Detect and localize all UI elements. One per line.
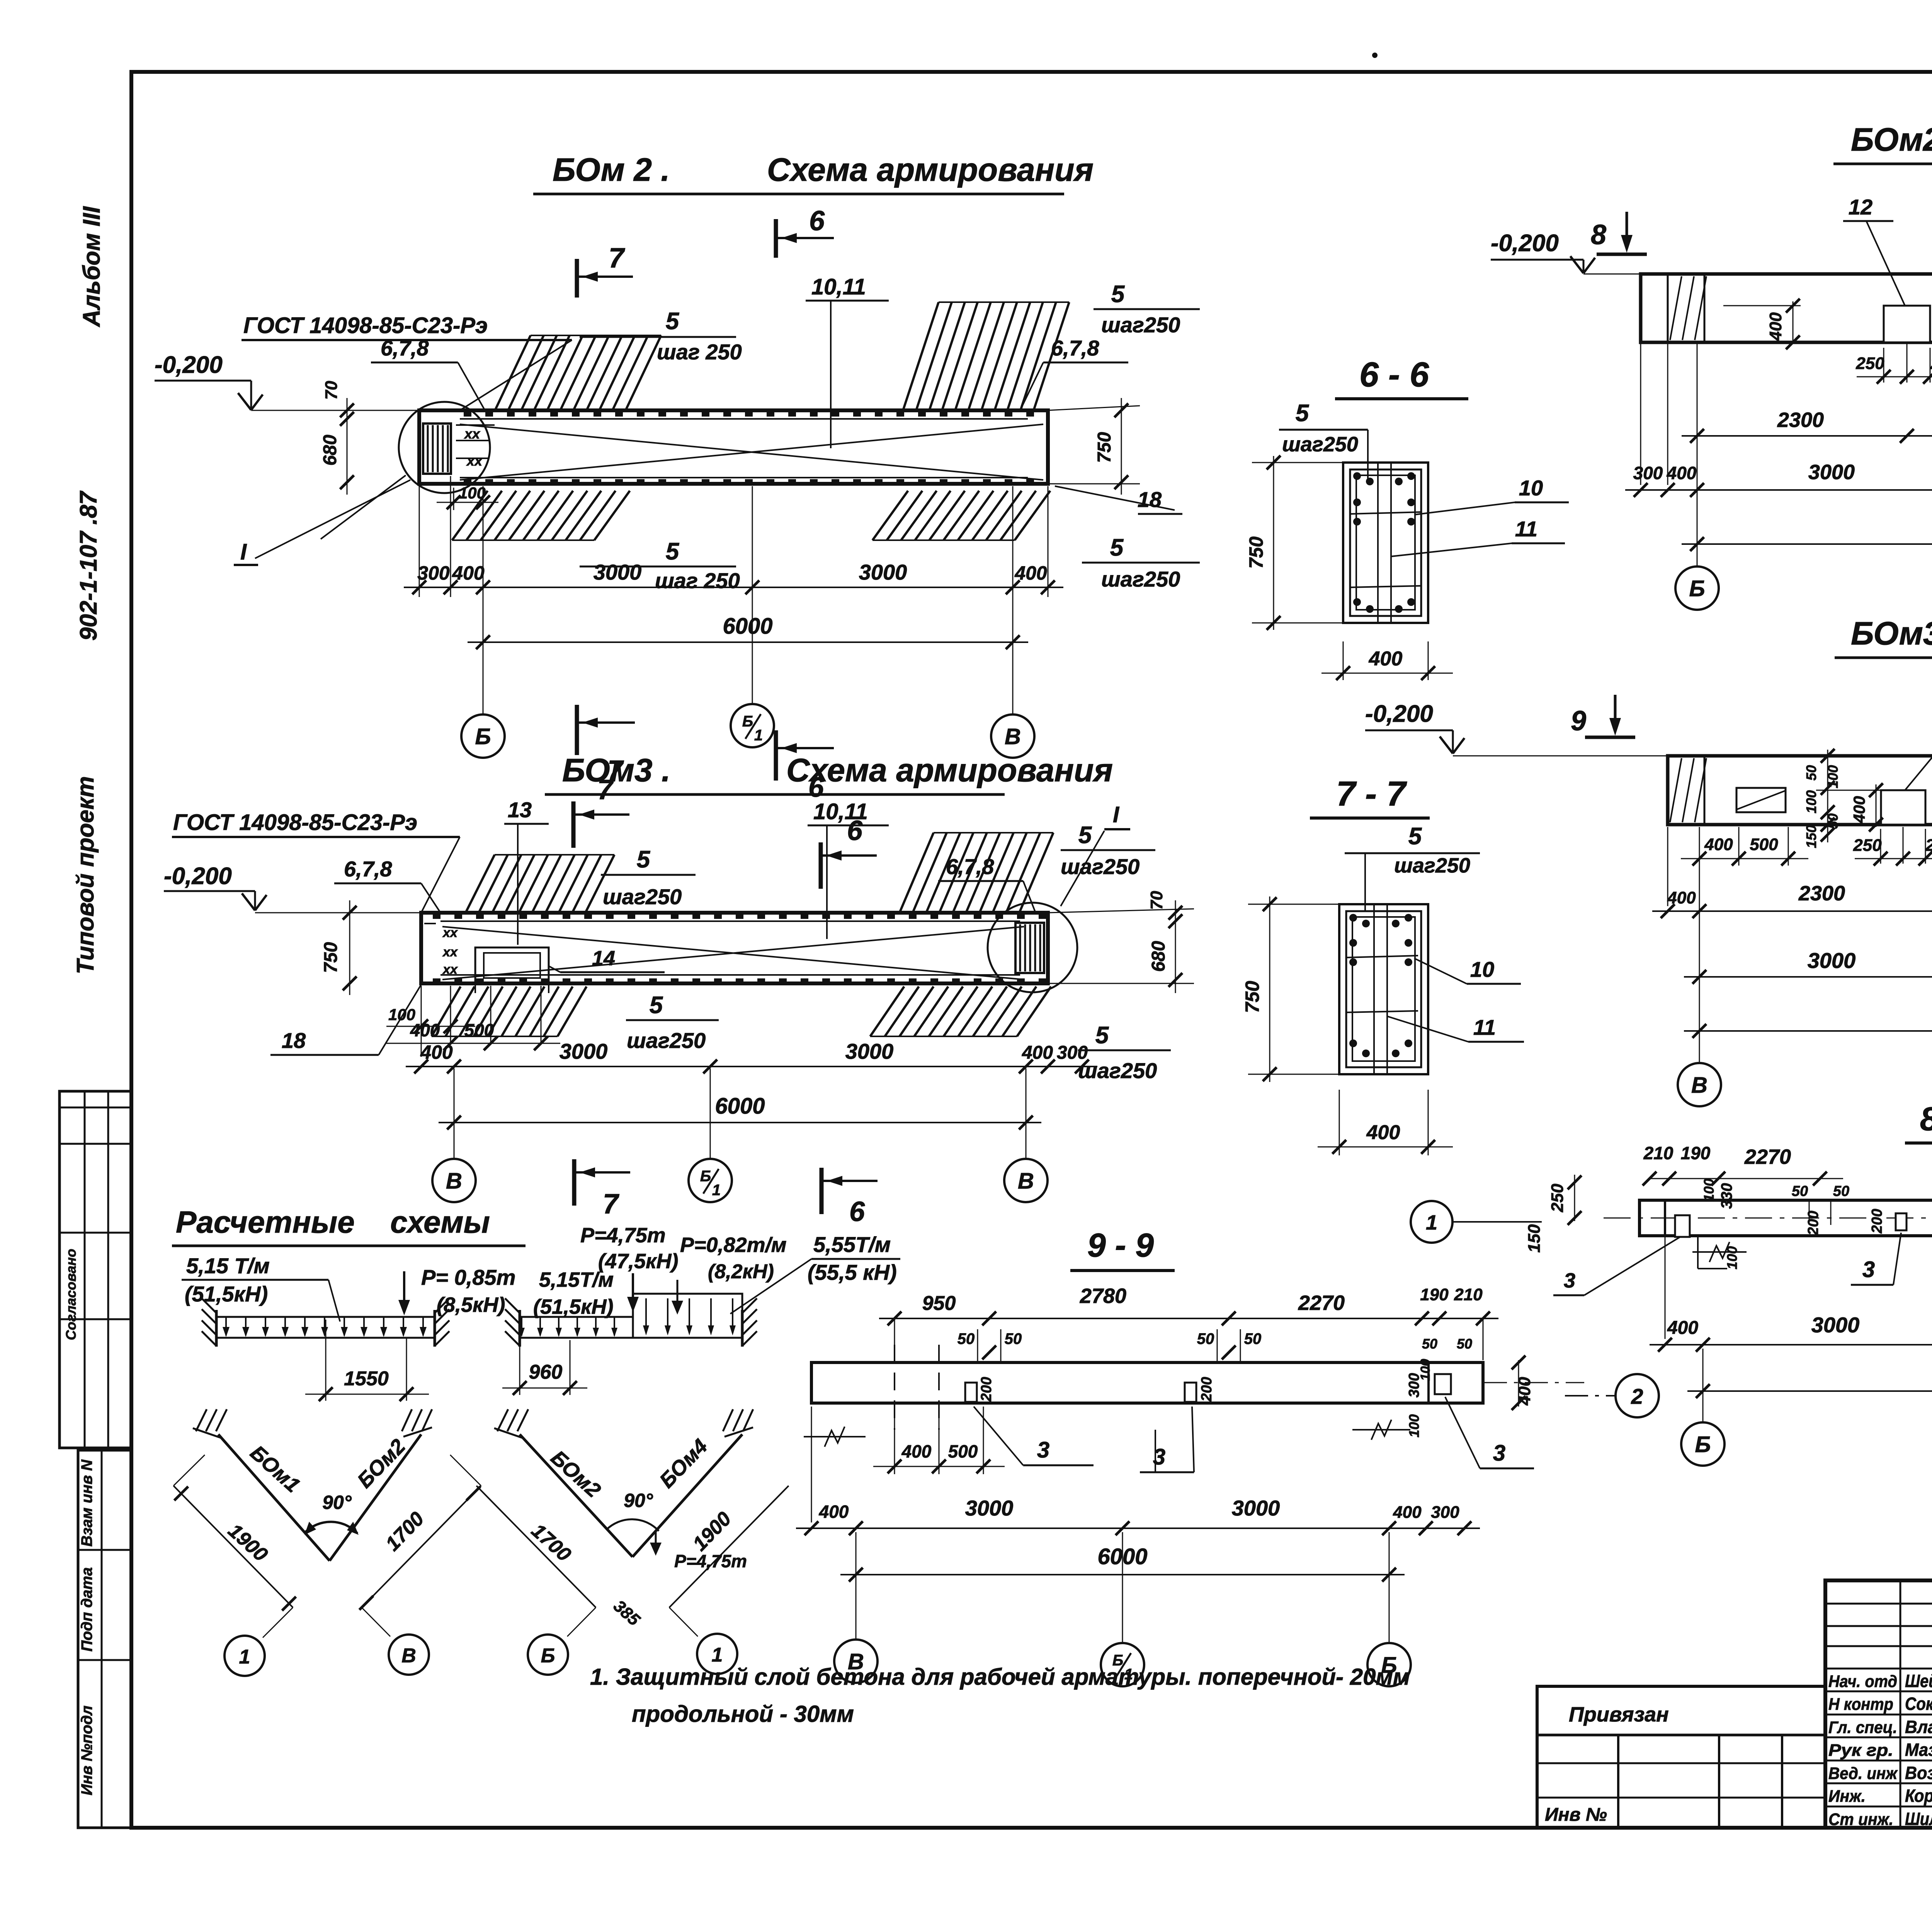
svg-text:xx: xx <box>442 945 458 959</box>
svg-text:ГОСТ 14098-85-С23-Рэ: ГОСТ 14098-85-С23-Рэ <box>173 810 417 835</box>
svg-text:14: 14 <box>592 947 615 970</box>
svg-text:10,11: 10,11 <box>811 274 866 299</box>
svg-text:1: 1 <box>1124 1666 1133 1683</box>
svg-text:10: 10 <box>1519 476 1543 500</box>
svg-text:7: 7 <box>603 1189 619 1220</box>
svg-text:7: 7 <box>609 243 625 274</box>
svg-text:190: 190 <box>1420 1285 1449 1304</box>
svg-text:100: 100 <box>1418 1359 1433 1381</box>
svg-text:2780: 2780 <box>1080 1284 1126 1308</box>
svg-text:В: В <box>1018 1169 1034 1194</box>
svg-text:Схема армирования: Схема армирования <box>786 752 1113 788</box>
svg-text:Согласовано: Согласовано <box>63 1249 79 1340</box>
svg-text:Подп дата: Подп дата <box>78 1567 95 1652</box>
svg-text:3000: 3000 <box>1232 1496 1280 1520</box>
svg-text:Возианов: Возианов <box>1905 1763 1932 1783</box>
svg-text:300: 300 <box>1633 463 1663 483</box>
svg-text:400: 400 <box>819 1502 849 1522</box>
svg-text:(55,5 кН): (55,5 кН) <box>808 1260 897 1284</box>
svg-text:Б: Б <box>1695 1432 1711 1457</box>
svg-text:(51,5кН): (51,5кН) <box>533 1295 613 1318</box>
svg-text:1: 1 <box>239 1646 250 1668</box>
svg-text:400: 400 <box>1667 888 1696 907</box>
svg-text:2270: 2270 <box>1744 1145 1791 1169</box>
svg-text:6,7,8: 6,7,8 <box>1051 336 1099 360</box>
svg-text:50: 50 <box>957 1330 975 1347</box>
svg-text:Вед. инж: Вед. инж <box>1828 1764 1898 1783</box>
svg-text:9: 9 <box>1571 706 1586 737</box>
svg-text:300: 300 <box>1431 1503 1459 1522</box>
svg-text:5: 5 <box>1110 534 1124 561</box>
svg-text:300: 300 <box>417 562 450 584</box>
svg-text:Мазалова: Мазалова <box>1905 1740 1932 1760</box>
svg-text:В: В <box>401 1645 416 1667</box>
svg-text:В: В <box>1691 1073 1708 1098</box>
svg-text:В: В <box>848 1649 864 1674</box>
svg-text:P= 0,85т: P= 0,85т <box>421 1265 515 1289</box>
svg-text:50: 50 <box>1457 1336 1472 1352</box>
svg-text:100: 100 <box>1406 1414 1422 1437</box>
svg-text:400: 400 <box>420 1041 453 1063</box>
svg-text:5: 5 <box>637 846 651 873</box>
svg-text:1. Защитный слой бетона: 1. Защитный слой бетона для рабочей арма… <box>590 1664 1410 1690</box>
svg-text:Расчетные: Расчетные <box>176 1205 355 1239</box>
svg-text:200: 200 <box>1869 1209 1885 1233</box>
svg-text:330: 330 <box>1718 1183 1735 1209</box>
svg-text:Нач. отд: Нач. отд <box>1828 1672 1897 1691</box>
svg-text:шаг250: шаг250 <box>1061 854 1139 879</box>
svg-text:3: 3 <box>1493 1441 1505 1466</box>
svg-text:БОм2.: БОм2. <box>1851 121 1932 158</box>
svg-text:100: 100 <box>1724 1246 1740 1269</box>
svg-text:70: 70 <box>322 381 341 400</box>
svg-text:шаг250: шаг250 <box>1101 567 1180 591</box>
svg-text:750: 750 <box>321 942 341 973</box>
svg-text:9 - 9: 9 - 9 <box>1087 1227 1154 1264</box>
svg-text:400: 400 <box>410 1020 440 1040</box>
svg-text:5: 5 <box>666 538 680 565</box>
svg-text:10: 10 <box>1470 957 1494 981</box>
svg-text:1: 1 <box>1426 1211 1437 1234</box>
svg-text:3000: 3000 <box>1808 461 1855 484</box>
svg-text:1: 1 <box>754 727 763 744</box>
svg-text:750: 750 <box>1242 981 1263 1013</box>
svg-text:150: 150 <box>1803 825 1819 848</box>
svg-text:3: 3 <box>1037 1437 1049 1463</box>
svg-text:100: 100 <box>459 484 486 502</box>
svg-text:400: 400 <box>1667 1318 1698 1338</box>
svg-text:50: 50 <box>1825 813 1841 829</box>
svg-text:Инв №: Инв № <box>1545 1805 1607 1825</box>
svg-text:400: 400 <box>1369 648 1403 670</box>
svg-text:Гл. спец.: Гл. спец. <box>1828 1718 1897 1737</box>
svg-text:90°: 90° <box>322 1492 352 1513</box>
svg-text:(47,5кН): (47,5кН) <box>598 1250 678 1273</box>
svg-text:680: 680 <box>1148 941 1169 972</box>
svg-text:Н контр: Н контр <box>1828 1695 1893 1714</box>
svg-text:8 - 8: 8 - 8 <box>1920 1101 1932 1138</box>
svg-text:Рук гр.: Рук гр. <box>1828 1741 1893 1760</box>
svg-text:210: 210 <box>1454 1285 1483 1304</box>
svg-text:200: 200 <box>1199 1377 1215 1402</box>
svg-text:Б: Б <box>700 1168 711 1185</box>
svg-text:5: 5 <box>1408 823 1422 850</box>
svg-text:Сокольская: Сокольская <box>1905 1694 1932 1714</box>
svg-text:50: 50 <box>1197 1330 1214 1347</box>
svg-text:750: 750 <box>1245 536 1267 569</box>
svg-text:шаг 250: шаг 250 <box>657 340 742 364</box>
svg-text:В: В <box>446 1169 462 1194</box>
svg-text:схемы: схемы <box>390 1205 490 1239</box>
svg-text:3: 3 <box>1564 1269 1575 1292</box>
svg-text:5,15 Т/м: 5,15 Т/м <box>186 1254 270 1278</box>
svg-text:5: 5 <box>1095 1022 1109 1049</box>
svg-text:шаг250: шаг250 <box>1078 1058 1157 1083</box>
svg-text:902-1-107 .87: 902-1-107 .87 <box>75 490 102 641</box>
svg-text:50: 50 <box>1422 1336 1437 1352</box>
svg-text:50: 50 <box>1244 1330 1262 1347</box>
svg-text:6000: 6000 <box>723 614 772 639</box>
svg-text:5: 5 <box>1078 822 1092 849</box>
svg-text:150: 150 <box>1525 1224 1544 1253</box>
svg-text:Взам инв N: Взам инв N <box>78 1459 95 1546</box>
svg-text:400: 400 <box>452 562 485 584</box>
svg-text:500: 500 <box>464 1020 494 1040</box>
svg-text:БОм3.: БОм3. <box>1851 615 1932 651</box>
svg-text:3: 3 <box>1862 1257 1875 1282</box>
svg-text:950: 950 <box>922 1292 956 1315</box>
svg-text:Б: Б <box>1112 1652 1123 1669</box>
svg-text:шаг250: шаг250 <box>1101 313 1180 337</box>
svg-text:300: 300 <box>1057 1043 1088 1063</box>
svg-text:Корнюкин: Корнюкин <box>1905 1786 1932 1806</box>
svg-text:3000: 3000 <box>560 1039 608 1063</box>
svg-text:50: 50 <box>1792 1183 1808 1199</box>
svg-text:250: 250 <box>1930 354 1932 373</box>
svg-text:7 - 7: 7 - 7 <box>1336 775 1407 813</box>
svg-text:680: 680 <box>320 435 340 466</box>
svg-text:xx: xx <box>442 962 458 977</box>
svg-text:11: 11 <box>1515 517 1537 541</box>
svg-text:250: 250 <box>1925 836 1932 855</box>
svg-text:13: 13 <box>508 798 532 822</box>
svg-text:Схема армирования: Схема армирования <box>767 151 1094 188</box>
svg-text:5: 5 <box>666 308 680 335</box>
svg-text:190: 190 <box>1681 1143 1711 1163</box>
svg-text:xx: xx <box>442 925 458 940</box>
svg-text:Б: Б <box>742 713 753 730</box>
svg-text:шаг250: шаг250 <box>1394 854 1470 877</box>
svg-text:250: 250 <box>1548 1184 1567 1213</box>
svg-text:3000: 3000 <box>965 1496 1014 1520</box>
svg-text:шаг250: шаг250 <box>627 1028 706 1053</box>
svg-text:Р=4,75т: Р=4,75т <box>580 1224 666 1247</box>
svg-text:Р=0,82т/м: Р=0,82т/м <box>680 1233 787 1257</box>
svg-text:Власенко: Власенко <box>1905 1717 1932 1737</box>
svg-text:750: 750 <box>1094 432 1115 463</box>
svg-text:6,7,8: 6,7,8 <box>344 857 392 881</box>
svg-text:Б: Б <box>1381 1653 1397 1678</box>
svg-text:5: 5 <box>1111 281 1125 308</box>
svg-text:12: 12 <box>1849 195 1872 219</box>
svg-text:В: В <box>1005 724 1021 749</box>
svg-text:210: 210 <box>1643 1143 1673 1163</box>
svg-text:50: 50 <box>1833 1183 1849 1199</box>
svg-text:50: 50 <box>1005 1330 1022 1347</box>
svg-text:3000: 3000 <box>1808 948 1856 973</box>
svg-text:100: 100 <box>1803 790 1819 813</box>
svg-text:400: 400 <box>1850 796 1868 823</box>
svg-text:6 - 6: 6 - 6 <box>1359 356 1429 394</box>
svg-text:5: 5 <box>650 992 663 1019</box>
svg-text:Альбом III: Альбом III <box>78 206 105 328</box>
svg-text:I: I <box>1113 802 1120 827</box>
svg-text:90°: 90° <box>624 1490 653 1511</box>
svg-text:400: 400 <box>1393 1503 1422 1522</box>
svg-text:18: 18 <box>282 1028 306 1053</box>
svg-text:I: I <box>240 539 247 565</box>
svg-text:2270: 2270 <box>1298 1291 1345 1315</box>
svg-text:Р=4,75т: Р=4,75т <box>674 1551 747 1571</box>
svg-text:400: 400 <box>1667 463 1697 483</box>
svg-text:960: 960 <box>529 1361 563 1383</box>
svg-text:Инж.: Инж. <box>1828 1787 1866 1806</box>
svg-text:2300: 2300 <box>1798 882 1845 905</box>
svg-text:-0,200: -0,200 <box>1365 701 1433 727</box>
svg-text:6,7,8: 6,7,8 <box>381 336 429 360</box>
svg-text:Шильмовер: Шильмовер <box>1905 1809 1932 1829</box>
svg-text:Б: Б <box>541 1645 555 1667</box>
svg-text:3000: 3000 <box>845 1039 894 1063</box>
svg-text:шаг250: шаг250 <box>603 885 682 909</box>
svg-text:2: 2 <box>1631 1384 1643 1408</box>
svg-text:Привязан: Привязан <box>1569 1703 1669 1726</box>
svg-text:(8,2кН): (8,2кН) <box>708 1260 774 1283</box>
svg-text:БОм3 .: БОм3 . <box>562 752 670 788</box>
svg-text:100: 100 <box>1701 1179 1717 1202</box>
svg-text:3000: 3000 <box>594 560 642 584</box>
svg-text:100: 100 <box>1825 765 1841 788</box>
svg-text:1: 1 <box>712 1182 721 1199</box>
svg-text:Б: Б <box>475 724 491 749</box>
svg-text:400: 400 <box>1515 1377 1534 1406</box>
svg-text:18: 18 <box>1138 487 1162 512</box>
svg-text:ГОСТ 14098-85-С23-Рэ: ГОСТ 14098-85-С23-Рэ <box>243 313 488 338</box>
svg-text:400: 400 <box>1014 562 1047 584</box>
svg-text:Типовой проект: Типовой проект <box>72 776 99 975</box>
svg-text:8: 8 <box>1591 219 1606 250</box>
svg-text:11: 11 <box>1473 1015 1496 1039</box>
svg-text:500: 500 <box>1750 835 1778 854</box>
svg-text:250: 250 <box>1853 836 1882 855</box>
svg-text:3000: 3000 <box>1811 1313 1860 1337</box>
svg-text:10,11: 10,11 <box>813 799 868 824</box>
svg-text:-0,200: -0,200 <box>164 863 232 890</box>
svg-text:5: 5 <box>1296 400 1310 427</box>
svg-text:Шейко: Шейко <box>1905 1671 1932 1691</box>
svg-text:(8,5кН): (8,5кН) <box>437 1293 505 1317</box>
svg-text:400: 400 <box>1022 1043 1053 1063</box>
svg-text:1: 1 <box>712 1644 723 1666</box>
svg-text:3000: 3000 <box>859 560 907 584</box>
svg-text:50: 50 <box>1803 765 1819 781</box>
svg-text:5,55Т/м: 5,55Т/м <box>813 1232 891 1257</box>
svg-text:400: 400 <box>1366 1121 1400 1144</box>
svg-text:шаг 250: шаг 250 <box>655 568 740 593</box>
svg-text:-0,200: -0,200 <box>155 352 223 378</box>
svg-text:2300: 2300 <box>1777 408 1824 432</box>
svg-text:продольной - 30мм: продольной - 30мм <box>632 1701 854 1727</box>
svg-text:xx: xx <box>466 453 483 469</box>
svg-text:200: 200 <box>1805 1211 1821 1235</box>
svg-text:xx: xx <box>464 426 481 442</box>
svg-text:шаг250: шаг250 <box>1282 433 1358 456</box>
svg-text:500: 500 <box>948 1441 978 1461</box>
svg-text:6: 6 <box>809 206 825 236</box>
svg-text:БОм 2 .: БОм 2 . <box>553 151 670 188</box>
svg-text:6: 6 <box>849 1196 865 1227</box>
svg-text:200: 200 <box>978 1377 995 1402</box>
svg-text:1550: 1550 <box>344 1368 389 1390</box>
svg-text:250: 250 <box>1855 354 1884 373</box>
svg-text:Инв №подл: Инв №подл <box>78 1706 95 1796</box>
svg-text:7: 7 <box>597 774 614 805</box>
svg-text:(51,5кН): (51,5кН) <box>185 1282 268 1306</box>
svg-text:6000: 6000 <box>715 1094 765 1119</box>
svg-text:70: 70 <box>1147 891 1166 910</box>
svg-text:400: 400 <box>901 1441 932 1461</box>
svg-text:6,7,8: 6,7,8 <box>946 854 994 879</box>
svg-text:400: 400 <box>1766 312 1785 341</box>
svg-text:400: 400 <box>1704 835 1733 854</box>
svg-text:-0,200: -0,200 <box>1491 230 1559 257</box>
svg-text:Б: Б <box>1689 576 1705 601</box>
svg-text:Ст инж.: Ст инж. <box>1828 1810 1893 1829</box>
